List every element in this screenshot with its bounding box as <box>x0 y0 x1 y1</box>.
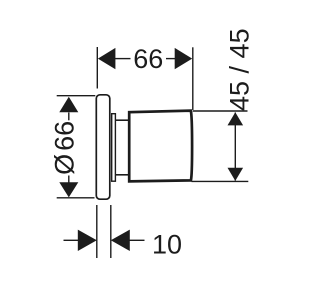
svg-text:Ø 66: Ø 66 <box>50 121 80 175</box>
svg-text:45 / 45: 45 / 45 <box>225 28 255 111</box>
svg-text:66: 66 <box>133 44 163 74</box>
svg-text:10: 10 <box>152 230 182 260</box>
